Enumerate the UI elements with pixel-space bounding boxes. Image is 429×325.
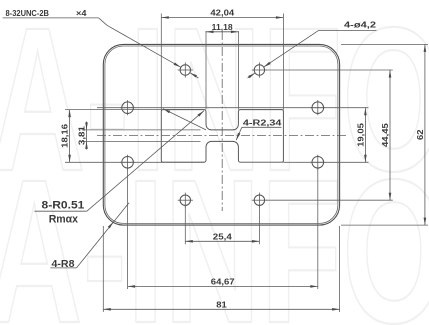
- svg-text:×4: ×4: [76, 8, 87, 18]
- svg-text:8-R0.51: 8-R0.51: [42, 199, 85, 211]
- svg-text:4-ø4,2: 4-ø4,2: [344, 20, 376, 30]
- svg-text:3,81: 3,81: [77, 126, 87, 145]
- svg-text:44,45: 44,45: [380, 123, 390, 147]
- svg-text:4-R2,34: 4-R2,34: [243, 117, 282, 127]
- svg-text:18,16: 18,16: [60, 124, 70, 148]
- svg-text:11,18: 11,18: [212, 22, 233, 32]
- svg-text:8-32UNC-2B: 8-32UNC-2B: [6, 8, 50, 18]
- svg-text:62: 62: [415, 129, 425, 140]
- svg-text:19,05: 19,05: [355, 123, 365, 147]
- svg-text:25,4: 25,4: [213, 231, 232, 241]
- svg-text:64,67: 64,67: [211, 277, 235, 287]
- svg-text:Rmαx: Rmαx: [49, 214, 78, 226]
- svg-text:81: 81: [216, 299, 227, 309]
- svg-text:42,04: 42,04: [210, 8, 234, 18]
